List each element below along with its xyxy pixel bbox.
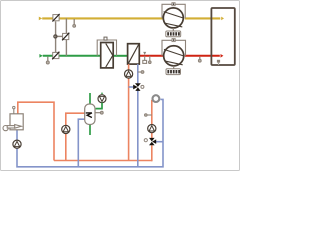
pump P1 hat frame (wire)	[162, 4, 185, 18]
drain fitting on red pipe	[143, 52, 147, 64]
riser from valve V1 down to valve V3 (wire)	[55, 21, 57, 52]
pipe yellow supply left segment (wire)	[39, 17, 164, 21]
pump P1 label plate	[166, 28, 181, 37]
blue drop from HX2 (wire)	[137, 64, 139, 83]
three-way valve VA	[133, 83, 144, 91]
blue stub valve VB to right riser (wire)	[155, 141, 163, 143]
blue return from cylinder (wire)	[78, 119, 85, 167]
burner	[3, 125, 21, 131]
sensor box on P1 hat	[172, 3, 175, 6]
pump P7 at cylinder top	[98, 93, 106, 103]
pump P2 label plate	[166, 66, 181, 75]
pump P4 on cylinder branch	[62, 125, 70, 133]
orange bottom run (wire)	[54, 160, 152, 162]
green pipe cylinder top stub (wire)	[89, 93, 91, 105]
orange branch to cylinder coil (wire)	[66, 113, 86, 125]
cylinder coil	[86, 113, 92, 118]
sensor on HX2 blue drop	[138, 71, 144, 74]
sensor below red pipe near tank	[198, 57, 201, 62]
bypass hat around HX1 (wire)	[97, 40, 116, 56]
pipe yellow supply right segment into tank (wire)	[185, 17, 224, 21]
blue stub valve VA to orange (wire)	[129, 86, 134, 88]
blue return from boiler (wire)	[16, 130, 18, 140]
pump P2 hat frame (wire)	[162, 40, 186, 56]
valve V3 on green	[52, 52, 59, 60]
DHW cylinder	[85, 104, 95, 125]
pump P5 below HX2	[125, 70, 133, 78]
sensor box on P2 hat	[172, 39, 175, 42]
heat exchanger HX2	[128, 44, 140, 64]
pump P1	[163, 8, 183, 28]
orange drop from HX2 (wire)	[128, 64, 130, 70]
valve V2 on link	[62, 33, 69, 41]
orange drop from loading ring (wire)	[151, 100, 153, 125]
boiler flue sensor	[13, 106, 15, 113]
green pipe pump-to-cylinder elbow (wire)	[96, 103, 102, 109]
sensor on yellow pipe	[73, 19, 76, 27]
pipe red flow to tank (wire)	[139, 54, 223, 58]
sensor on green pipe	[46, 57, 49, 64]
heat exchanger HX1	[101, 43, 114, 68]
storage tank	[211, 8, 234, 65]
sensor box on HX1 hat	[104, 37, 107, 40]
loading ring (flow switch)	[153, 95, 160, 102]
sensor inside tank	[217, 60, 220, 65]
sensor on right orange drop	[145, 114, 152, 117]
boiler body	[10, 114, 23, 130]
pump P2	[164, 46, 184, 66]
junction node dot	[54, 35, 57, 38]
pump P6 on right orange drop	[148, 125, 156, 133]
orange boiler flow riser (wire)	[18, 102, 54, 160]
sensor on red pipe	[149, 56, 152, 64]
pump P3 below boiler	[13, 140, 21, 148]
riser yellow-to-green right branch (wire)	[65, 18, 67, 33]
three-way valve VB	[144, 138, 156, 145]
border frame	[1, 1, 240, 171]
pipe green supply (wire)	[39, 54, 127, 58]
fitting on cylinder right port	[95, 111, 103, 114]
green pipe below cylinder (wire)	[89, 124, 91, 135]
valve V1 on yellow	[52, 14, 59, 22]
link dot-to-valve V2 (wire)	[56, 35, 63, 37]
